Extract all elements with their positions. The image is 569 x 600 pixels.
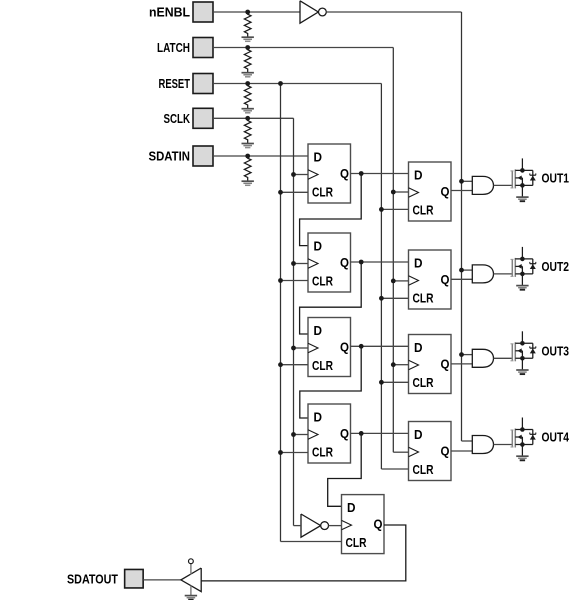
svg-text:D: D [414,256,423,271]
ground for Q1 source [516,197,528,201]
flip-flop U3 (shift stage 2) [308,233,351,292]
svg-text:Q: Q [340,340,349,355]
pad LATCH [193,38,213,58]
svg-text:D: D [314,323,323,338]
transistor Q2 (output FET) [511,247,536,285]
junction nENBL/AND2 [459,268,464,273]
ground for Q4 source [516,456,528,460]
junction RESET branch [278,81,283,86]
wire nENBL to AND gate 4 [462,440,473,442]
svg-text:CLR: CLR [346,535,367,550]
wire U10 Q to SDATOUT buffer [201,525,405,581]
AND gate A1 [472,176,493,194]
label nENBL [149,5,190,20]
svg-text:Q: Q [441,272,450,287]
junction nENBL/AND1 [459,179,464,184]
svg-text:OUT2: OUT2 [542,259,569,274]
wire U3 Q to U7 D [351,261,409,263]
wire nENBL to AND gate 3 [462,354,473,356]
wire LATCH to U8 clock [393,364,408,366]
wire RESET from pad [213,83,381,85]
pad SDATIN [193,146,213,166]
ground for Q3 source [516,370,528,374]
junction LATCH/U6 clock [391,190,396,195]
wire RESET to U7 CLR [381,297,408,299]
svg-text:D: D [314,150,323,165]
label OUT1 [542,170,569,185]
pad SCLK [193,108,213,128]
junction nENBL/resistor [245,10,250,15]
junction LATCH/U8 clock [391,362,396,367]
junction LATCH/U7 clock [391,279,396,284]
svg-text:SDATIN: SDATIN [149,149,191,164]
wire U4 Q to U8 D [351,345,409,347]
wire SCLK to U11 input [294,525,302,527]
resistor pulldown on LATCH [244,48,251,73]
wire SDATIN from pad [213,155,308,157]
inverter U1 (nENBL) [300,1,326,23]
wire U7 Q to AND gate [451,278,472,280]
wire LATCH to U6 clock [393,191,408,193]
pad nENBL [193,2,213,22]
ground for SDATIN pulldown [242,181,254,185]
junction SDATIN/resistor [245,154,250,159]
wire nENBL from pad [213,11,300,13]
svg-text:SDATOUT: SDATOUT [67,571,118,586]
label OUT2 [542,259,569,274]
flip-flop U8 (latch stage 3) [409,335,452,394]
wire SCLK to U2 clock [294,174,309,176]
inverter U11 (SCLK to U10 clock) [301,514,329,537]
junction SCLK/resistor [245,116,250,121]
svg-text:CLR: CLR [312,274,333,289]
ground for Q2 source [516,286,528,290]
flip-flop U4 (shift stage 3) [308,318,351,377]
junction RESET/U8 CLR [379,380,384,385]
resistor pulldown on nENBL [244,12,251,37]
wire RESET to U8 CLR [381,381,408,383]
ground for U12 [185,596,197,600]
pad SDATOUT [125,569,143,588]
transistor Q3 (output FET) [511,331,536,369]
wire A4 output to Q4 gate [494,444,513,446]
wire A3 output to Q3 gate [494,357,513,359]
junction SCLK/U3 clock [291,261,296,266]
wire U2 Q to U6 D [351,173,409,175]
svg-text:LATCH: LATCH [157,40,190,55]
wire RESET to U10 CLR [281,541,342,543]
label LATCH [157,40,190,55]
wire A2 output to Q2 gate [494,273,513,275]
resistor pulldown on RESET [244,84,251,109]
wire LATCH vertical bus [392,48,394,453]
svg-text:Q: Q [441,444,450,459]
junction RESET/U4 CLR [278,362,283,367]
svg-text:D: D [414,427,423,442]
label SDATOUT [67,571,118,586]
wire RESET left vertical bus [280,84,282,542]
wire U3 Q wrap to U4 D [300,262,362,334]
wire U9 Q to AND gate [451,450,472,452]
AND gate A4 [472,436,493,454]
wire nENBL vertical bus [461,12,463,441]
flip-flop U5 (shift stage 4) [308,404,351,463]
ground for RESET pulldown [242,109,254,113]
junction SCLK/U2 clock [291,172,296,177]
svg-text:CLR: CLR [413,203,434,218]
wire A1 output to Q1 gate [494,184,513,186]
svg-text:OUT3: OUT3 [542,343,569,358]
junction RESET/resistor [245,81,250,86]
svg-text:D: D [347,500,356,515]
wire U11 output to U10 clock [329,525,342,527]
wire nENBL to AND gate 2 [462,269,473,271]
junction SCLK/U5 clock [291,432,296,437]
flip-flop U2 (shift stage 1) [308,144,351,203]
label SCLK [164,111,191,126]
flip-flop U10 (shift stage 5) [342,495,385,554]
flip-flop U6 (latch stage 1) [409,162,452,221]
svg-text:Q: Q [441,357,450,372]
junction LATCH/resistor [245,45,250,50]
wire U2 Q wrap to U3 D [300,174,362,246]
wire LATCH to U9 clock [393,451,408,453]
transistor Q4 (output FET) [511,418,536,456]
wire U4 Q wrap to U5 D [300,346,361,418]
svg-text:D: D [314,239,323,254]
wire RESET to U2 CLR [281,191,309,193]
wire U5 Q to U9 D [351,432,409,434]
label SDATIN [149,149,191,164]
wire nENBL inverter output [326,11,461,13]
wire SCLK to U4 clock [294,347,309,349]
junction nENBL/AND3 [459,352,464,357]
ground for LATCH pulldown [242,73,254,77]
label OUT4 [542,430,569,445]
svg-text:OUT4: OUT4 [542,430,569,445]
wire SCLK vertical bus [293,118,295,525]
flip-flop U9 (latch stage 4) [409,422,452,481]
flip-flop U7 (latch stage 2) [409,250,452,309]
wire nENBL to AND gate 1 [462,180,473,182]
svg-text:D: D [314,410,323,425]
svg-text:CLR: CLR [413,291,434,306]
ground for SCLK pulldown [242,144,254,148]
AND gate A2 [472,265,493,283]
svg-text:CLR: CLR [312,445,333,460]
svg-text:Q: Q [441,184,450,199]
svg-text:CLR: CLR [413,462,434,477]
wire LATCH from pad [213,47,393,49]
transistor Q1 (output FET) [511,158,536,196]
label OUT3 [542,343,569,358]
svg-text:OUT1: OUT1 [542,170,569,185]
svg-text:RESET: RESET [159,76,191,91]
svg-text:Q: Q [340,255,349,270]
junction U3 Q branch [359,260,364,265]
label RESET [159,76,191,91]
svg-text:Q: Q [340,166,349,181]
resistor pulldown on SDATIN [244,156,251,181]
svg-text:nENBL: nENBL [149,5,190,20]
wire U5 Q wrap to U10 D [328,433,362,506]
svg-text:D: D [414,168,423,183]
junction U5 Q branch [359,431,364,436]
junction U2 Q branch [359,171,364,176]
wire SDATOUT pad to buffer [143,579,181,581]
wire SCLK to U5 clock [294,434,309,436]
wire U6 Q to AND gate [451,190,472,192]
svg-text:Q: Q [340,426,349,441]
wire SCLK from pad [213,117,294,119]
pad RESET [193,74,213,94]
tri-state buffer U12 (SDATOUT) [181,559,201,595]
wire RESET right vertical bus [380,84,382,470]
svg-text:D: D [414,340,423,355]
junction RESET/U2 CLR [278,190,283,195]
svg-text:CLR: CLR [312,185,333,200]
wire RESET to U4 CLR [281,364,309,366]
wire LATCH to U7 clock [393,280,408,282]
wire RESET to U5 CLR [281,452,309,454]
wire RESET to U6 CLR [381,208,408,210]
junction RESET/U3 CLR [278,278,283,283]
junction RESET/U5 CLR [278,450,283,455]
junction U4 Q branch [359,344,364,349]
ground for nENBL pulldown [242,37,254,41]
resistor pulldown on SCLK [244,118,251,143]
AND gate A3 [472,349,493,367]
junction RESET/U6 CLR [379,207,384,212]
wire RESET to U3 CLR [281,280,309,282]
svg-text:CLR: CLR [312,358,333,373]
wire SCLK to U3 clock [294,263,309,265]
svg-text:CLR: CLR [413,375,434,390]
junction SCLK/U4 clock [291,346,296,351]
svg-text:Q: Q [374,517,383,532]
junction RESET/U7 CLR [379,296,384,301]
svg-text:SCLK: SCLK [164,111,191,126]
wire U8 Q to AND gate [451,363,472,365]
wire RESET to U9 CLR [381,468,408,470]
